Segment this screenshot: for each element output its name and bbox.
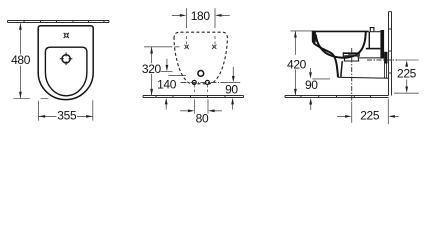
floor line (side): [285, 96, 389, 98]
fixing bolt circle left: [192, 80, 196, 84]
svg-text:90: 90: [225, 83, 238, 97]
svg-text:80: 80: [196, 112, 209, 126]
svg-text:480: 480: [11, 53, 31, 67]
svg-text:420: 420: [287, 57, 307, 71]
dim 140: [166, 59, 168, 65]
ext line inlet: [169, 75, 187, 77]
rim front section block: [312, 31, 316, 44]
dim 80: [180, 110, 222, 112]
wall line (tiled wall strip, plan): [8, 21, 110, 23]
bowl section curve: [316, 32, 366, 58]
water inlet circle: [198, 71, 204, 77]
centerline through bolts: [181, 81, 224, 83]
svg-text:140: 140: [157, 78, 177, 92]
dim 90 (side): [310, 68, 312, 72]
supply conduit section: [380, 30, 384, 59]
inlet stub: [370, 28, 374, 32]
foot back edge: [341, 61, 342, 77]
bidet bottom edge: [338, 77, 389, 78]
svg-text:355: 355: [57, 109, 77, 123]
outlet axis centerline: [367, 59, 397, 61]
bidet dashed outline (rear): [174, 32, 227, 84]
svg-text:225: 225: [397, 66, 417, 80]
mounting block outline: [370, 31, 381, 33]
dim 320: [151, 47, 153, 95]
dim 140/90 lower arrows (below floor): [166, 104, 232, 110]
bidet outer outline (plan): [38, 26, 93, 100]
ext line holes height: [144, 46, 180, 48]
svg-text:90: 90: [305, 78, 318, 92]
drain fitting: [343, 52, 359, 61]
dim 355: [39, 100, 93, 120]
back rim vertical: [368, 31, 370, 49]
fixing hole marker right: [212, 45, 216, 49]
svg-text:320: 320: [142, 62, 162, 76]
fixing hole marker left: [184, 45, 188, 49]
dim 420: [290, 30, 312, 32]
back underside line: [359, 57, 384, 59]
fixing bolt circle right: [205, 80, 209, 84]
wall line (side): [389, 12, 392, 96]
drain cross tick: [348, 54, 356, 56]
outlet flange: [384, 52, 387, 64]
dim 90 (middle): [232, 67, 234, 76]
bidet underside / foot front edge: [313, 43, 338, 77]
bidet inner rim (plan): [45, 47, 87, 96]
bidet rim top line: [312, 30, 369, 32]
dim 225 (right): [394, 92, 419, 94]
svg-text:225: 225: [360, 109, 380, 123]
block bottom thick: [366, 48, 381, 50]
outlet pipe sides: [385, 64, 387, 79]
drain axis centerline: [351, 48, 353, 102]
dim 180: [172, 8, 230, 44]
drain target: [60, 53, 73, 66]
tap hole marker: [64, 33, 69, 38]
dim 480: [14, 23, 49, 98]
ext line inlet top: [161, 71, 173, 73]
svg-text:180: 180: [191, 9, 211, 23]
bolt extension stubs: [194, 85, 208, 114]
ext line bolts height right: [222, 82, 240, 84]
dim 225 (bottom): [351, 102, 353, 123]
floor line (middle view): [143, 96, 244, 98]
